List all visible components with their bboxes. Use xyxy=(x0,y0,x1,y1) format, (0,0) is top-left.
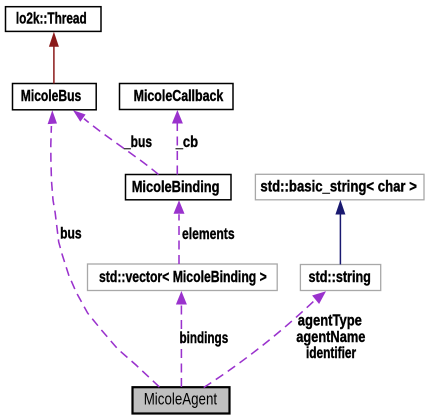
svg-text:agentName: agentName xyxy=(296,327,365,345)
svg-text:MicoleAgent: MicoleAgent xyxy=(144,390,218,409)
class box std::basic_string&lt; char &gt; xyxy=(255,174,424,200)
usage edge elements : std::vector -> MicoleBinding xyxy=(174,200,185,264)
class box MicoleBinding xyxy=(126,175,232,200)
class box lo2k::Thread xyxy=(6,7,102,32)
svg-text:bindings: bindings xyxy=(180,329,229,347)
class box MicoleAgent (current class, grey) xyxy=(133,387,230,413)
class box MicoleCallback xyxy=(120,84,234,110)
svg-text:MicoleBus: MicoleBus xyxy=(21,87,82,105)
svg-text:bus: bus xyxy=(60,224,82,242)
svg-text:elements: elements xyxy=(182,225,235,243)
usage edge _cb : MicoleBinding -> MicoleCallback xyxy=(172,110,183,175)
class box std::string xyxy=(300,265,380,291)
svg-text:MicoleCallback: MicoleCallback xyxy=(134,87,224,105)
usage edge bindings : MicoleAgent -> std::vector xyxy=(176,291,187,387)
svg-text:std::vector< MicoleBinding >: std::vector< MicoleBinding > xyxy=(99,268,267,286)
usage edge bus : MicoleAgent -> MicoleBus xyxy=(48,110,160,387)
class box std::vector&lt; MicoleBinding &gt; xyxy=(88,264,278,291)
public inheritance arrow std::string -> std::basic_string&lt; char &gt; xyxy=(335,200,345,265)
svg-text:agentType: agentType xyxy=(298,311,362,329)
svg-text:_cb: _cb xyxy=(175,133,199,151)
svg-text:MicoleBinding: MicoleBinding xyxy=(132,177,220,195)
usage edge agentType/agentName/identifier : MicoleAgent -> std::string xyxy=(204,291,326,387)
usage edge _bus : MicoleBinding -> MicoleBus xyxy=(73,110,159,174)
svg-text:_bus: _bus xyxy=(123,133,152,151)
svg-text:lo2k::Thread: lo2k::Thread xyxy=(16,9,87,27)
svg-text:identifier: identifier xyxy=(306,344,357,362)
class box MicoleBus xyxy=(13,84,97,110)
svg-text:std::basic_string< char >: std::basic_string< char > xyxy=(260,177,417,195)
svg-text:std::string: std::string xyxy=(309,268,371,286)
private inheritance arrow MicoleBus -> lo2k::Thread xyxy=(49,32,59,84)
